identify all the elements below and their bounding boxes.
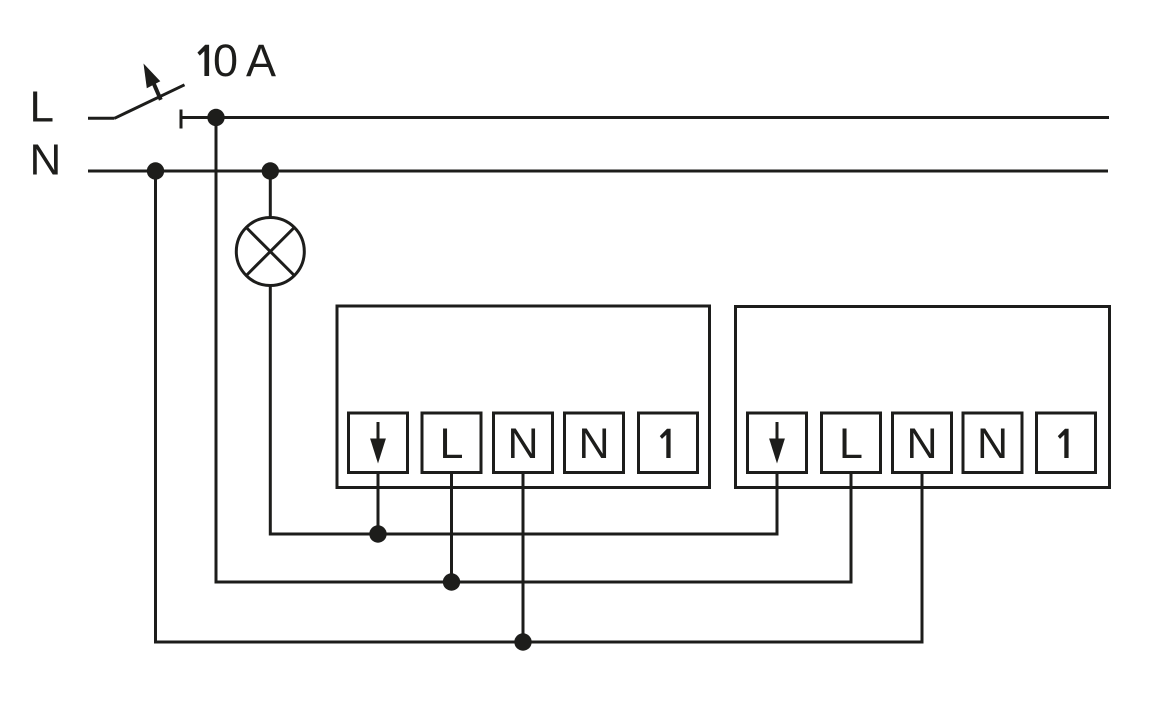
svg-text:L: L [440,420,464,468]
svg-text:L: L [30,83,54,132]
svg-text:0 A: 0 A [213,35,276,86]
svg-text:N: N [977,420,1008,468]
svg-text:N: N [578,420,609,468]
svg-text:N: N [30,135,62,184]
svg-text:N: N [507,420,538,468]
svg-text:N: N [906,420,937,468]
svg-text:L: L [839,420,863,468]
